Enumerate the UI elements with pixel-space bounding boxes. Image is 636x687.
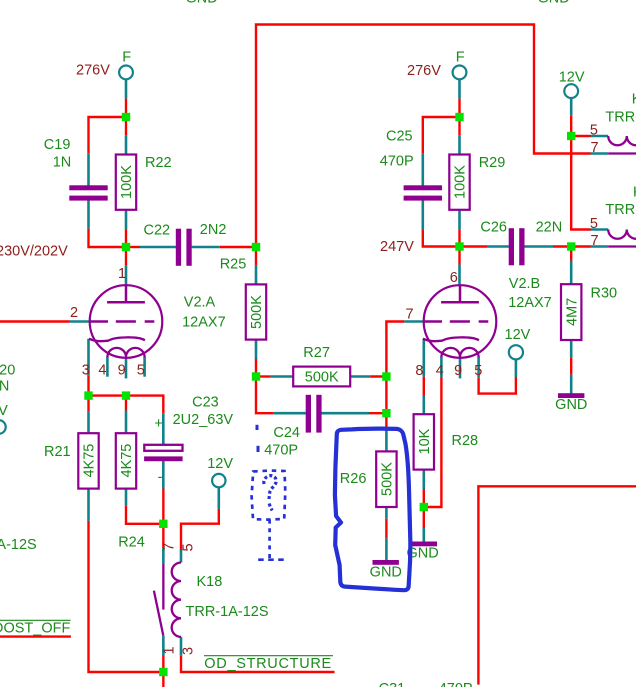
wire R24 bottom to K18 node bbox=[126, 506, 163, 524]
wire bottom rail below junction to edge bbox=[162, 672, 164, 687]
pin lead V2.B pin7 grid bbox=[404, 320, 423, 323]
wire C22 right to mid column bbox=[220, 246, 256, 248]
pin lead V2.A pin5 heater bbox=[143, 357, 146, 377]
svg-text:9: 9 bbox=[454, 363, 462, 379]
capacitor C22 2N2 plates bbox=[176, 229, 192, 266]
wire relay1 coil pin5 feed bbox=[571, 135, 590, 137]
junction bottom rail K18 pin1 bbox=[159, 668, 167, 676]
junction V2.A plate node bbox=[122, 243, 130, 251]
wire K18 node to pin7 bbox=[162, 524, 164, 548]
pin lead relay2 pin7 bbox=[591, 245, 609, 248]
relay K19 coil top right bbox=[608, 136, 636, 145]
svg-text:+: + bbox=[154, 416, 162, 432]
pin lead V2.B pin8 cathode bbox=[422, 339, 425, 377]
svg-text:C26: C26 bbox=[480, 220, 507, 236]
svg-text:V2.A: V2.A bbox=[184, 295, 216, 311]
svg-text:100K: 100K bbox=[453, 165, 469, 199]
pin lead V2.B pin9 heater bbox=[459, 357, 462, 378]
pin lead C23 minus bbox=[162, 461, 165, 489]
relay K20 switch line bbox=[608, 245, 636, 247]
wire R25 bottom to R27 node bbox=[255, 359, 257, 377]
svg-text:R28: R28 bbox=[452, 433, 479, 449]
svg-text:12V: 12V bbox=[505, 327, 531, 343]
svg-text:F: F bbox=[122, 50, 131, 66]
svg-text:7: 7 bbox=[591, 233, 599, 249]
svg-text:R30: R30 bbox=[591, 285, 618, 301]
pin lead R22 top bbox=[125, 135, 128, 154]
junction F1/R22/C19 bbox=[122, 113, 130, 121]
svg-text:4M7: 4M7 bbox=[564, 298, 580, 326]
pin lead V2.A pin3 cathode bbox=[87, 339, 90, 376]
pin lead relay1 pin5 bbox=[591, 135, 609, 138]
svg-text:276V: 276V bbox=[407, 63, 441, 79]
relay K20 coil right bbox=[608, 230, 636, 239]
wire C25 bottom to 247V node bbox=[423, 229, 460, 246]
pin lead relay1 pin7 bbox=[591, 152, 609, 155]
resistor R22 100K bbox=[116, 155, 136, 210]
svg-text:C25: C25 bbox=[386, 129, 413, 145]
wire V2.B pin6 bbox=[458, 247, 460, 265]
pin lead R30 top bbox=[570, 261, 573, 285]
wire R21 bottom long run to bottom rail bbox=[89, 521, 164, 672]
wire plate node to C22 left bbox=[126, 246, 140, 248]
pin lead 12V top right bbox=[570, 98, 573, 116]
svg-text:R26: R26 bbox=[340, 471, 367, 487]
svg-text:22N: 22N bbox=[536, 220, 563, 236]
svg-text:12V: 12V bbox=[559, 70, 585, 86]
pin lead R29 bottom bbox=[458, 210, 461, 229]
junction F2/R29/C25 bbox=[455, 113, 463, 121]
pin lead R27 right bbox=[350, 375, 370, 378]
svg-text:R27: R27 bbox=[303, 345, 330, 361]
svg-text:C31: C31 bbox=[379, 681, 406, 687]
pin lead relay2 pin5 bbox=[591, 228, 609, 231]
pin lead K18 pin7 bbox=[162, 548, 165, 564]
svg-text:470P: 470P bbox=[380, 154, 414, 170]
svg-text:R25: R25 bbox=[220, 257, 247, 273]
svg-text:10K: 10K bbox=[417, 428, 433, 454]
svg-text:7: 7 bbox=[161, 543, 177, 551]
svg-text:C24: C24 bbox=[273, 425, 300, 441]
wire V2.A cathode down to junction bbox=[87, 376, 89, 396]
terminal cut at left edge bbox=[0, 420, 6, 434]
svg-text:K18: K18 bbox=[197, 574, 223, 590]
svg-text:12V: 12V bbox=[0, 403, 8, 419]
svg-text:12AX7: 12AX7 bbox=[508, 295, 552, 311]
pin lead R30 bottom bbox=[570, 340, 573, 357]
junction 10K/pin4 gnd node bbox=[420, 503, 428, 511]
pin lead V2.B pin6 anode bbox=[458, 265, 461, 286]
svg-text:276V: 276V bbox=[76, 63, 110, 79]
pin lead R26 bottom bbox=[385, 507, 388, 519]
junction C24/grid column bbox=[382, 409, 390, 417]
svg-text:2N2: 2N2 bbox=[200, 222, 227, 238]
pin lead V2.B pin4 heater bbox=[440, 357, 443, 377]
resistor R24 4K75 bbox=[116, 433, 136, 488]
pin lead C25 bottom bbox=[421, 201, 424, 230]
annotation blue freehand loop around R26 bbox=[335, 429, 410, 591]
ground symbol for 10K bbox=[406, 542, 438, 562]
overline of OD_STRUCTURE label bbox=[204, 655, 333, 657]
svg-text:5: 5 bbox=[590, 216, 598, 232]
svg-text:500K: 500K bbox=[379, 462, 395, 496]
wire R22 bottom bbox=[125, 229, 127, 247]
wire C19 bottom to plate node bbox=[89, 229, 127, 247]
svg-text:500K: 500K bbox=[305, 370, 339, 386]
svg-text:4: 4 bbox=[98, 363, 106, 379]
wire R25 top lead bbox=[255, 247, 257, 266]
pin lead R25 top bbox=[255, 266, 258, 285]
wire top net from C22/R25 column to right column bbox=[256, 25, 591, 248]
svg-text:2U2_63V: 2U2_63V bbox=[173, 412, 234, 428]
svg-text:BOOST_OFF: BOOST_OFF bbox=[0, 621, 70, 637]
ground symbol for R26 bbox=[370, 560, 402, 581]
wire R30 node down bbox=[570, 247, 572, 261]
wire R27 left lead bbox=[256, 375, 271, 377]
wire 12V mid terminal to K18 coil pin5 bbox=[181, 509, 219, 550]
svg-text:6: 6 bbox=[450, 270, 458, 286]
terminal F1 bbox=[119, 66, 133, 80]
wire pin4 V2.B down to GND junction bbox=[424, 377, 442, 507]
junction C22/top-wire/R25 bbox=[252, 243, 260, 251]
wire cathode node row to C23 plus bbox=[89, 396, 164, 414]
junction 12V/relay1 pin5 bbox=[567, 132, 575, 140]
svg-text:5: 5 bbox=[181, 543, 197, 551]
resistor R28 10K bbox=[414, 414, 434, 469]
svg-text:7: 7 bbox=[591, 140, 599, 156]
svg-text:7: 7 bbox=[406, 307, 414, 323]
terminal 12V top right bbox=[564, 84, 578, 98]
svg-text:R24: R24 bbox=[118, 535, 145, 551]
pin lead V2.A pin1 anode bbox=[125, 266, 128, 286]
wire K18 pin3 to OD_STRUCTURE rail bbox=[181, 656, 335, 672]
pin lead K18 pin3 bbox=[180, 637, 183, 656]
pin lead C19 bottom bbox=[87, 201, 90, 229]
wire K18 pin1 to bottom rail bbox=[162, 656, 164, 673]
terminal 12V mid bbox=[212, 474, 225, 487]
wire 10K bottom to GND junction bbox=[423, 489, 425, 507]
pin lead C24 right bbox=[322, 412, 370, 415]
pin lead 10K top bbox=[422, 396, 425, 415]
svg-text:9: 9 bbox=[118, 363, 126, 379]
pin lead R21 bottom bbox=[87, 489, 90, 521]
svg-text:3: 3 bbox=[82, 363, 90, 379]
pin lead R29 top bbox=[458, 135, 461, 154]
pin lead C26 left bbox=[487, 245, 509, 248]
svg-text:3: 3 bbox=[181, 647, 197, 655]
capacitor C24 470P plates bbox=[306, 395, 322, 433]
svg-text:R22: R22 bbox=[145, 155, 172, 171]
wire 12V rail down to relay2 pin5 bbox=[571, 136, 590, 230]
wire R26 bottom mid segment bbox=[385, 519, 387, 539]
svg-text:5: 5 bbox=[590, 122, 598, 138]
pin lead R24 bottom bbox=[125, 489, 128, 506]
tube V2.A 12AX7 bbox=[89, 285, 162, 358]
pin lead V2.A pin4 heater bbox=[106, 357, 109, 377]
svg-text:247V: 247V bbox=[380, 239, 414, 255]
wire pin5 V2.B to 12V terminal bbox=[479, 377, 516, 394]
svg-text:R21: R21 bbox=[44, 444, 71, 460]
pin lead C24 left bbox=[274, 412, 306, 415]
wire V2.B grid column vertical bbox=[386, 322, 404, 430]
svg-text:C23: C23 bbox=[192, 395, 219, 411]
resistor R27 500K horizontal bbox=[293, 367, 350, 387]
ground symbol for R30 bbox=[555, 393, 587, 413]
svg-text:4: 4 bbox=[436, 363, 444, 379]
resistor R26 500K bbox=[376, 451, 396, 507]
overline of BOOST_OFF label bbox=[0, 619, 71, 621]
capacitor C19 1N plates bbox=[69, 185, 107, 200]
wire junction to C25 top bbox=[423, 117, 460, 154]
wire GND junction down to ground lead bbox=[423, 507, 425, 528]
wire R21 top bbox=[87, 396, 89, 412]
wire R27 node down to C24 row bbox=[256, 377, 274, 414]
pin lead C22 left bbox=[140, 246, 176, 249]
terminal F2 bbox=[453, 66, 467, 80]
wire 247V node to C26 left bbox=[460, 245, 488, 247]
svg-text:5: 5 bbox=[137, 363, 145, 379]
pin lead 12V mid terminal bbox=[218, 487, 221, 509]
junction C26/R30/relay2 bbox=[567, 242, 575, 250]
svg-text:1N: 1N bbox=[0, 379, 9, 395]
svg-text:F: F bbox=[456, 50, 465, 66]
wire F1 terminal to junction bbox=[125, 99, 127, 117]
svg-text:4K75: 4K75 bbox=[119, 444, 135, 478]
pin lead V2.B pin5 heater bbox=[477, 357, 480, 377]
wire C26 right to R30 node bbox=[553, 245, 591, 247]
junction 247V node V2.B bbox=[455, 242, 463, 250]
wire R24 top bbox=[125, 396, 127, 411]
svg-text:12AX7: 12AX7 bbox=[182, 315, 226, 331]
pin lead R26 top bbox=[385, 429, 388, 451]
capacitor C25 470P plates bbox=[404, 185, 442, 200]
junction cathode/R21 bbox=[84, 391, 92, 399]
junction R25/R27 node bbox=[252, 372, 260, 380]
wire V2.A pin1 bbox=[125, 247, 127, 266]
wire C24 right to grid column bbox=[369, 412, 386, 414]
resistor R30 4M7 bbox=[561, 284, 581, 340]
svg-text:C19: C19 bbox=[44, 137, 71, 153]
resistor R25 500K bbox=[246, 284, 266, 339]
svg-text:OD_STRUCTURE: OD_STRUCTURE bbox=[204, 656, 332, 672]
relay K18 coil bbox=[172, 563, 181, 637]
pin lead V2.A pin2 grid bbox=[70, 320, 90, 323]
svg-text:230V/202V: 230V/202V bbox=[0, 244, 68, 260]
wire BOOST_OFF stub bbox=[0, 635, 71, 637]
pin lead K18 pin1 bbox=[162, 636, 165, 656]
pin lead R25 bottom bbox=[255, 340, 258, 359]
svg-text:470P: 470P bbox=[264, 443, 298, 459]
relay K19 switch line bbox=[608, 152, 636, 154]
annotation blue dashed question mark bbox=[252, 425, 287, 560]
junction C23/R24/K18 pin7 bbox=[159, 520, 167, 528]
pin lead R30 gnd bbox=[570, 375, 573, 394]
tube V2.B 12AX7 bbox=[423, 285, 496, 358]
pin lead R22 bottom bbox=[125, 210, 128, 229]
pin lead R21 top bbox=[87, 411, 90, 433]
svg-text:GND: GND bbox=[186, 0, 218, 7]
pin lead F2 bottom bbox=[458, 79, 461, 98]
svg-text:2: 2 bbox=[70, 305, 78, 321]
svg-text:500K: 500K bbox=[249, 295, 265, 329]
wire R22 top lead bbox=[125, 117, 127, 135]
pin lead C25 top bbox=[421, 154, 424, 186]
junction R27/grid column bbox=[382, 372, 390, 380]
resistor R29 100K bbox=[449, 155, 469, 210]
wire R29 top lead bbox=[458, 117, 460, 135]
pin lead 10K bottom bbox=[422, 470, 425, 489]
svg-text:TRR-1A-12S: TRR-1A-12S bbox=[186, 604, 269, 620]
svg-text:TRR-1A-12S: TRR-1A-12S bbox=[0, 537, 37, 553]
svg-text:C22: C22 bbox=[144, 223, 171, 239]
svg-text:4K75: 4K75 bbox=[82, 444, 98, 478]
wire R30 bottom to GND lead bbox=[570, 357, 572, 374]
capacitor C26 22N plates bbox=[509, 228, 525, 265]
svg-text:1N: 1N bbox=[53, 155, 72, 171]
svg-text:R20: R20 bbox=[0, 363, 15, 379]
junction R24 top node bbox=[122, 391, 130, 399]
capacitor C23 electrolytic plates bbox=[144, 445, 183, 461]
svg-text:1: 1 bbox=[162, 646, 178, 654]
svg-text:5: 5 bbox=[474, 363, 482, 379]
wire junction to C19 top bbox=[89, 117, 127, 154]
svg-text:GND: GND bbox=[538, 0, 570, 7]
svg-text:12V: 12V bbox=[207, 456, 233, 472]
svg-text:1: 1 bbox=[118, 266, 126, 282]
svg-text:8: 8 bbox=[415, 363, 423, 379]
wire R27 right to grid column bbox=[370, 375, 386, 377]
relay K18 switch bbox=[154, 563, 163, 636]
resistor R21 4K75 bbox=[78, 433, 98, 488]
pin lead C22 right bbox=[192, 246, 220, 249]
pin lead C26 right bbox=[525, 245, 554, 248]
wire F2 terminal to junction bbox=[458, 99, 460, 117]
pin lead V2.A pin9 heater bbox=[125, 357, 128, 378]
wire R29 bottom bbox=[458, 229, 460, 246]
svg-text:GND: GND bbox=[555, 397, 587, 413]
terminal 12V right of V2.B bbox=[509, 345, 523, 359]
wire 12V top right to relay nodes bbox=[570, 116, 572, 136]
svg-text:K19: K19 bbox=[632, 92, 636, 108]
pin lead K18 pin5 bbox=[180, 550, 183, 563]
pin lead R26 gnd bbox=[385, 538, 388, 560]
pin lead 10K gnd bbox=[422, 528, 425, 543]
wire V2.B cathode pin8 mid segment bbox=[423, 377, 425, 396]
wire V2.A grid pin2 from left edge bbox=[0, 320, 70, 322]
svg-text:V2.B: V2.B bbox=[509, 276, 540, 292]
pin lead C19 top bbox=[87, 154, 90, 186]
svg-text:-: - bbox=[158, 470, 163, 486]
wire big L net bottom right bbox=[478, 486, 636, 684]
pin lead R24 top bbox=[125, 411, 128, 434]
pin lead C23 plus bbox=[162, 413, 165, 445]
pin lead 12V terminal right of V2.B bbox=[515, 359, 518, 377]
svg-text:GND: GND bbox=[370, 565, 402, 581]
pin lead R27 left bbox=[271, 375, 294, 378]
svg-text:TRR-1A-12S: TRR-1A-12S bbox=[605, 202, 636, 218]
wire C23 minus to K18 node bbox=[162, 489, 164, 524]
svg-text:R29: R29 bbox=[479, 155, 506, 171]
pin lead F1 bottom bbox=[125, 79, 128, 98]
svg-text:TRR-1A-12S: TRR-1A-12S bbox=[605, 110, 636, 126]
svg-text:100K: 100K bbox=[119, 165, 135, 199]
svg-text:470P: 470P bbox=[439, 681, 473, 687]
